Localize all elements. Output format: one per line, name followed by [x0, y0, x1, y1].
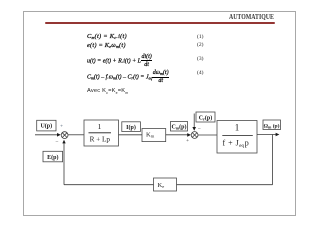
wire block G2 to output	[257, 134, 277, 136]
wire input U(p) to sum1	[35, 134, 58, 136]
wire sum2 to block G2	[198, 134, 217, 136]
equation 4: Cm(t)-f.wm(t)-Cr(t)=Jeq dwm/dt	[87, 70, 169, 84]
svg-text:Ωm (p): Ωm (p)	[264, 122, 280, 129]
wire Km to sum2	[166, 134, 189, 136]
arrowhead up into sum1	[62, 140, 65, 144]
svg-text:1: 1	[98, 122, 102, 131]
svg-text:U(p): U(p)	[40, 123, 52, 130]
note Avec Kc=Ke=Km	[87, 88, 128, 95]
svg-text:−: −	[55, 139, 58, 145]
label box E(p)	[43, 151, 63, 162]
label box Cr(p)	[196, 112, 215, 122]
equation number (1)	[197, 35, 203, 41]
wire block G1 to Km	[119, 134, 143, 136]
svg-text:R + Lp: R + Lp	[90, 135, 111, 143]
arrowhead into sum2	[187, 133, 191, 137]
equation number (3)	[197, 57, 203, 63]
header title AUTOMATIQUE	[229, 13, 274, 20]
wire sum1 to block R+Lp	[68, 134, 84, 136]
feedback wire left riser up to sum1	[63, 142, 65, 185]
svg-text:+: +	[186, 138, 189, 144]
block Km	[142, 129, 166, 142]
label box U(p)	[37, 120, 56, 131]
block G1: 1/(R+Lp)	[84, 120, 119, 146]
arrowhead into sum1	[57, 133, 61, 137]
feedback wire bottom right to Ke	[177, 184, 273, 186]
svg-text:Cm(p): Cm(p)	[171, 123, 186, 130]
label box Omega m (p)	[263, 120, 281, 130]
equation 1: Cm(t)=Kc.i(t)	[87, 34, 127, 40]
arrowhead down into sum2	[192, 127, 196, 131]
label box Cm(p)	[171, 122, 188, 132]
svg-text:Cr(p): Cr(p)	[199, 115, 212, 122]
svg-text:Ke: Ke	[158, 182, 165, 189]
feedback wire bottom Ke to left riser	[64, 184, 154, 186]
svg-text:−: −	[198, 126, 201, 132]
block Ke	[154, 178, 177, 191]
equation 3: u(t)=e(t)+R.i(t)+L di/dt	[87, 54, 152, 68]
slide page frame	[23, 11, 296, 216]
svg-text:Km: Km	[146, 131, 155, 138]
header red rule	[45, 22, 275, 24]
equation 2: e(t)=Ke.wm(t)	[87, 43, 126, 49]
equation number (4)	[197, 71, 203, 77]
svg-text:+: +	[60, 124, 63, 130]
feedback wire down on right	[272, 135, 274, 185]
svg-text:I(p): I(p)	[126, 124, 136, 131]
block G2: 1/(f+Jeq p)	[217, 121, 257, 154]
equation number (2)	[197, 43, 203, 49]
svg-text:f + Jeqp: f + Jeqp	[223, 138, 250, 149]
output arrowhead	[276, 133, 280, 137]
svg-text:E(p): E(p)	[47, 154, 58, 161]
svg-text:1: 1	[235, 123, 240, 133]
summing junction S1	[61, 132, 68, 139]
summing junction S2	[191, 132, 198, 139]
label box I(p)	[122, 122, 141, 132]
wire Cr(p) down to sum2	[193, 114, 195, 129]
